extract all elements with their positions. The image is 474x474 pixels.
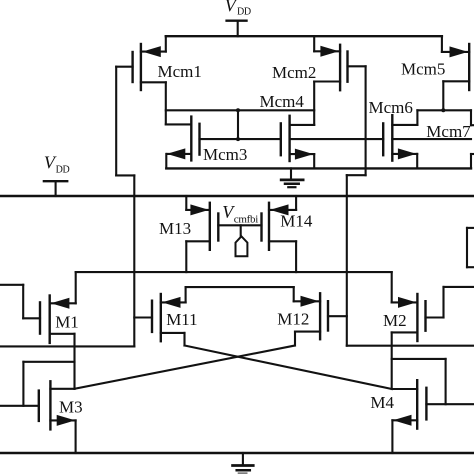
svg-text:V: V: [225, 0, 238, 16]
svg-text:Mcm3: Mcm3: [203, 145, 247, 164]
svg-text:M12: M12: [277, 310, 309, 329]
svg-text:cmfbi: cmfbi: [234, 213, 258, 225]
svg-text:M1: M1: [55, 313, 79, 332]
svg-text:Mcm2: Mcm2: [272, 63, 316, 82]
svg-text:DD: DD: [56, 165, 70, 176]
svg-text:M4: M4: [370, 393, 394, 412]
svg-text:Mcm1: Mcm1: [158, 62, 202, 81]
svg-text:DD: DD: [237, 7, 251, 18]
svg-text:M13: M13: [159, 219, 191, 238]
svg-text:Mcm6: Mcm6: [369, 98, 413, 117]
svg-text:Mcm5: Mcm5: [401, 59, 445, 78]
svg-text:M14: M14: [280, 212, 313, 231]
svg-text:M3: M3: [59, 397, 83, 416]
svg-text:Mcm4: Mcm4: [260, 92, 305, 111]
svg-text:M2: M2: [383, 311, 407, 330]
svg-text:M11: M11: [166, 310, 198, 329]
svg-text:Mcm7: Mcm7: [426, 122, 471, 141]
